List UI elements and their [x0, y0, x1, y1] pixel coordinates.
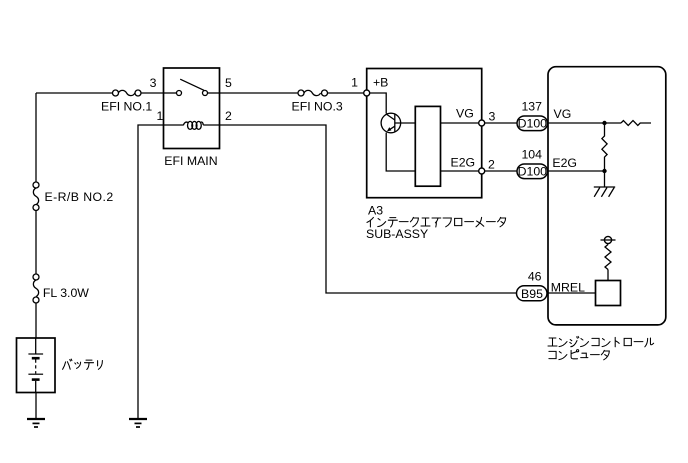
fuse FL 3.0W: [33, 274, 39, 303]
battery box: [17, 338, 56, 393]
svg-text:SUB-ASSY: SUB-ASSY: [366, 227, 428, 241]
label ECU katakana line2: [549, 350, 609, 360]
fuse E-R/B NO.2: [33, 182, 39, 211]
svg-text:VG: VG: [456, 107, 474, 121]
resistor MREL vertical: [605, 245, 611, 270]
svg-text:E-R/B NO.2: E-R/B NO.2: [45, 190, 114, 204]
ECU box: [548, 67, 666, 325]
svg-text:VG: VG: [554, 107, 572, 121]
svg-text:A3: A3: [368, 204, 383, 218]
svg-text:104: 104: [521, 148, 542, 162]
svg-text:137: 137: [521, 100, 542, 114]
wire to signal ground: [604, 171, 606, 187]
ground ECU hatched: [594, 187, 615, 197]
fuse EFI NO.3: [298, 90, 328, 96]
pin 1 +B terminal: [364, 90, 370, 96]
svg-text:EFI NO.3: EFI NO.3: [292, 99, 343, 113]
label intake air flow meter katakana: [367, 217, 506, 227]
battery cells: [28, 338, 43, 393]
wire base to sensor block: [395, 122, 415, 124]
wire fuse to relay: [141, 92, 163, 94]
svg-text:B95: B95: [521, 287, 543, 301]
sensor block rectangle: [415, 106, 440, 186]
connector D100 E2G: [517, 164, 548, 179]
wire E2G inside ECU: [548, 170, 605, 172]
pin 3 VG terminal: [479, 120, 485, 126]
terminal circle MREL: [601, 236, 616, 243]
wire top feed: [36, 92, 113, 94]
svg-text:2: 2: [488, 157, 495, 171]
A3 box intake air flow meter: [367, 69, 482, 198]
node E2G junction: [602, 169, 606, 173]
svg-text:FL 3.0W: FL 3.0W: [43, 286, 89, 300]
wire battery to ground: [35, 393, 37, 419]
connector B95 MREL: [517, 286, 548, 301]
svg-text:46: 46: [528, 269, 542, 283]
wire E2G internal: [441, 170, 479, 172]
relay EFI MAIN box: [164, 68, 220, 149]
svg-text:EFI MAIN: EFI MAIN: [164, 154, 217, 168]
wire block to resistor: [607, 270, 609, 281]
wire VG inside ECU: [548, 122, 621, 124]
connector D100 VG: [517, 116, 548, 131]
svg-text:E2G: E2G: [451, 155, 476, 169]
wire VG internal: [441, 122, 479, 124]
label battery katakana: [63, 359, 103, 369]
pin 2 E2G terminal: [479, 168, 485, 174]
svg-text:EFI NO.1: EFI NO.1: [101, 99, 152, 113]
label ECU katakana line1: [548, 336, 654, 346]
wire relay pin2 to MREL: [220, 125, 517, 293]
MREL relay coil block: [596, 281, 621, 306]
fuse EFI NO.1: [113, 90, 142, 96]
wire fuse NO.3 to A3: [328, 92, 364, 94]
wire VG to connector: [485, 122, 517, 124]
ground battery: [27, 419, 45, 427]
wire +B internal: [370, 93, 387, 114]
svg-text:D100: D100: [518, 117, 548, 131]
relay switch: [164, 79, 220, 95]
wire resistor to terminal: [607, 244, 609, 245]
resistor VG horizontal: [621, 121, 651, 126]
wire MREL inside ECU: [548, 292, 596, 294]
svg-text:1: 1: [351, 76, 358, 90]
transistor Q1: [381, 113, 401, 133]
svg-text:5: 5: [225, 76, 232, 90]
svg-text:+B: +B: [373, 76, 388, 90]
svg-text:D100: D100: [518, 165, 548, 179]
svg-text:3: 3: [150, 76, 157, 90]
wire relay to fuse NO.3: [220, 92, 299, 94]
wire emitter down: [386, 133, 415, 171]
node VG junction: [602, 121, 606, 125]
svg-text:E2G: E2G: [552, 156, 577, 170]
wire rail to battery: [35, 303, 37, 338]
wire E2G to connector: [485, 170, 517, 172]
wire relay pin1 to ground rail: [138, 125, 164, 418]
wire battery rail top segment: [35, 93, 37, 182]
svg-text:2: 2: [225, 109, 232, 123]
svg-text:1: 1: [157, 109, 164, 123]
relay coil: [164, 121, 220, 129]
ground relay: [129, 419, 147, 427]
wire rail mid segment: [35, 211, 37, 275]
resistor VG-E2G vertical: [602, 123, 607, 171]
svg-text:3: 3: [489, 109, 496, 123]
